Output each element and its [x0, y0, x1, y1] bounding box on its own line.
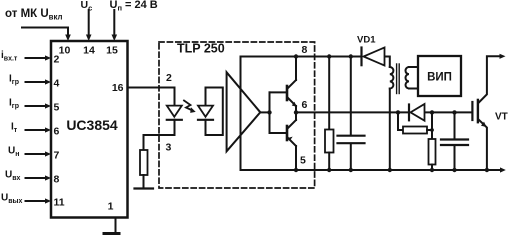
wire Uвх to U1 pin 8 — [26, 177, 46, 179]
wire C2 upper — [454, 112, 456, 138]
wire VD1 anode to transformer — [385, 57, 390, 68]
wire C2 lower — [454, 146, 456, 170]
node bottom rail at T1 — [388, 168, 392, 172]
wire C1 branch upper — [350, 57, 352, 135]
node R3/R4 junction — [430, 128, 434, 132]
svg-text:TLP 250: TLP 250 — [177, 42, 225, 56]
svg-text:ВИП: ВИП — [427, 72, 452, 84]
diode VD2 (gate, anti-parallel) — [408, 105, 410, 121]
svg-text:UC3854: UC3854 — [66, 117, 118, 133]
svg-text:VD1: VD1 — [357, 35, 376, 46]
svg-text:6: 6 — [54, 126, 60, 138]
resistor R4 (gate-emitter) — [429, 139, 436, 165]
TLP250 dashed box — [159, 42, 315, 188]
svg-text:2: 2 — [54, 54, 60, 66]
node top rail / pin 8 — [294, 54, 298, 58]
resistor R1 (LED series to ground) — [140, 150, 148, 175]
wire Uп to U1 pin 15 — [113, 10, 115, 36]
wire Uc to U1 pin 14 — [88, 10, 90, 36]
svg-text:5: 5 — [54, 102, 60, 114]
node Vcc rail at C1 — [349, 54, 353, 58]
node output / pin 6 — [294, 110, 298, 114]
wire R4 upper — [431, 112, 433, 139]
LED emitter diode (TLP input) — [167, 106, 182, 117]
svg-text:15: 15 — [106, 45, 118, 57]
node bottom rail at C1 — [349, 168, 353, 172]
wire top rail (Vcc) to VD1 — [241, 56, 362, 58]
transformer T1 core — [396, 64, 398, 94]
wire bottom rail (pin 5 / emitter) — [241, 169, 502, 171]
IC U1 UC3854 body — [51, 41, 128, 218]
amplifier A1 triangle — [227, 72, 261, 151]
wire amp output to base bus — [260, 111, 269, 113]
wire Q1 emitter to output node — [295, 106, 297, 112]
svg-text:6: 6 — [302, 99, 308, 111]
svg-text:VT: VT — [495, 112, 508, 123]
photodiode (TLP detector) loop — [206, 88, 223, 136]
wire Uн to U1 pin 7 — [26, 153, 46, 155]
resistor R2 — [325, 130, 334, 153]
wire Iт to U1 pin 6 — [26, 129, 46, 131]
transistor VT body bar — [477, 100, 479, 122]
wire R4 lower — [431, 165, 433, 171]
ground (IC pin 1) — [103, 232, 121, 235]
wire R3 left lead — [398, 112, 403, 130]
svg-text:3: 3 — [166, 142, 172, 154]
svg-text:2: 2 — [166, 72, 172, 84]
diode VD1 — [360, 48, 362, 66]
light coupling arrow — [184, 101, 193, 111]
svg-text:1: 1 — [108, 201, 114, 213]
block VIP (secondary power supply) — [418, 56, 461, 96]
wire LED cathode to TLP pin 3 and resistor — [144, 120, 175, 150]
wire R1 to ground — [143, 175, 145, 189]
ground (R1) — [135, 187, 154, 189]
node gate line at R3 left — [396, 110, 400, 114]
wire VT emitter — [479, 120, 487, 171]
wire VT collector — [479, 56, 501, 103]
wire Iгр to U1 pin 5 — [26, 105, 46, 107]
photodiode triangle — [198, 106, 213, 117]
svg-text:7: 7 — [54, 150, 60, 162]
svg-text:8: 8 — [54, 174, 60, 186]
transformer T1 secondary winding — [405, 67, 409, 89]
wire C1 branch lower — [350, 144, 352, 170]
wire T1 primary to bottom rail — [389, 89, 391, 171]
node gate line at C2 — [452, 110, 456, 114]
wire base stub Q1 — [270, 91, 287, 93]
node base bus junction — [267, 110, 271, 114]
wire T1 secondary to VIP bottom — [409, 88, 418, 90]
node bottom rail at C2 — [452, 168, 456, 172]
transistor VT (IGBT) gate bar — [471, 102, 473, 120]
capacitor C2 (gate-emitter) — [441, 138, 468, 140]
wire U1 pin1 to ground — [115, 218, 117, 233]
wire base stub Q2 — [270, 132, 287, 134]
wire U1 pin16 to TLP250 pin 2 — [128, 88, 175, 106]
wire Q1 collector to top rail — [295, 57, 297, 81]
svg-text:10: 10 — [59, 45, 71, 57]
svg-text:16: 16 — [112, 82, 124, 94]
wire Q2 emitter to bottom rail — [295, 146, 297, 170]
node gate line at R3/R4 — [430, 110, 434, 114]
svg-text:8: 8 — [302, 44, 308, 56]
wire Q2 collector to output node — [295, 112, 297, 120]
wire R2 branch lower — [328, 153, 330, 171]
transistor Q1 (upper, NPN) — [286, 86, 289, 100]
wire base bus vertical — [269, 92, 271, 133]
svg-text:5: 5 — [300, 155, 306, 167]
svg-text:4: 4 — [54, 78, 60, 90]
transistor Q2 (lower, PNP) — [286, 126, 289, 140]
node bottom rail at R4 — [430, 168, 434, 172]
transformer T1 primary winding — [390, 67, 394, 89]
wire R2 branch upper — [328, 57, 330, 130]
svg-text:11: 11 — [54, 197, 65, 209]
wire R3 right lead — [427, 129, 432, 131]
svg-text:Uп = 24 В: Uп = 24 В — [110, 0, 158, 13]
wire enable signal to U1 pin 10 — [22, 28, 68, 36]
wire amp supply vertical — [240, 57, 242, 171]
capacitor C1 — [338, 135, 365, 137]
node bottom rail at VT emitter — [485, 168, 489, 172]
node bottom rail / pin 5 — [294, 168, 298, 172]
node Vcc rail at R2 — [327, 54, 331, 58]
node bottom rail at R2 — [327, 168, 331, 172]
resistor R3 (parallel with VD2) — [403, 127, 427, 134]
wire output gate line (pin 6 rail) — [296, 111, 408, 113]
wire Iгр to U1 pin 4 — [26, 81, 46, 83]
svg-text:14: 14 — [83, 45, 95, 57]
wire T1 secondary to VIP top — [409, 66, 418, 68]
wire iвх.т to U1 pin 2 — [26, 57, 46, 59]
wire Uвых to U1 pin 11 — [26, 200, 46, 202]
